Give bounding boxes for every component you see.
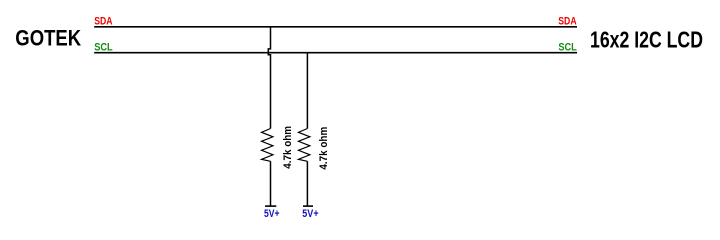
- svg-text:SDA: SDA: [558, 16, 576, 28]
- svg-text:GOTEK: GOTEK: [15, 26, 81, 51]
- svg-text:SDA: SDA: [94, 16, 112, 28]
- svg-text:4.7k ohm: 4.7k ohm: [319, 127, 331, 170]
- svg-text:5V+: 5V+: [264, 208, 280, 220]
- svg-text:SCL: SCL: [94, 42, 112, 54]
- svg-text:5V+: 5V+: [302, 208, 318, 220]
- svg-text:4.7k ohm: 4.7k ohm: [283, 126, 295, 169]
- svg-text:SCL: SCL: [558, 42, 576, 54]
- svg-text:16x2 I2C LCD: 16x2 I2C LCD: [590, 27, 703, 53]
